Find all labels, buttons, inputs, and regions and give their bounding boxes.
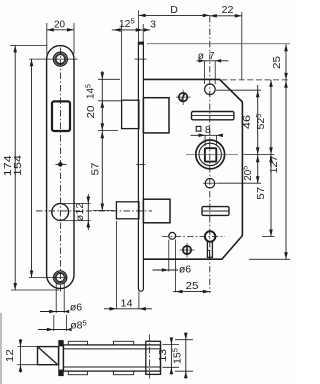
lower slot — [202, 207, 229, 216]
follower inner circle — [199, 143, 221, 165]
svg-text:12: 12 — [5, 349, 16, 363]
guide tab top 1 — [68, 341, 87, 345]
dim 174 line and arrows — [13, 45, 17, 290]
svg-text:8: 8 — [205, 124, 211, 136]
follower outer circle — [196, 140, 225, 169]
dim 25 bottom line and arrows — [173, 290, 211, 294]
dead bolt centerline — [36, 210, 152, 212]
dim 15.5 extension lines — [175, 340, 193, 372]
faceplate section bottom view — [59, 341, 63, 376]
dim dia12 line and arrows — [87, 194, 91, 230]
svg-text:25: 25 — [272, 55, 283, 69]
dim dia8.5 extension lines — [54, 315, 67, 331]
left chain dimension line — [101, 71, 105, 211]
svg-text:D: D — [170, 4, 178, 16]
svg-text:22: 22 — [222, 5, 234, 16]
guide tab bottom 2 — [113, 371, 133, 375]
dim 12.5 label — [119, 17, 135, 30]
lock case outline — [143, 79, 242, 259]
dim 20 line and arrows — [47, 28, 74, 32]
dim D line and arrows — [139, 14, 210, 18]
upper slot midline — [192, 115, 234, 117]
dim dia7 line and arrows — [197, 59, 229, 63]
dim 12.5 line and arrows — [112, 28, 151, 32]
screw post top — [176, 90, 191, 106]
dim 154 label — [13, 154, 24, 176]
dim 15.5 label — [170, 348, 183, 364]
dim 8 extension lines — [205, 135, 216, 146]
svg-text:ø6: ø6 — [70, 302, 82, 314]
guide tab top 2 — [113, 341, 133, 345]
dim dia6 case extension lines — [169, 240, 176, 293]
dim 12 line and arrows — [19, 339, 23, 373]
latch body bottom view — [64, 345, 161, 371]
bottom view centerline — [148, 335, 150, 381]
dim 22 line and arrows — [210, 14, 242, 18]
dim 52.5 label — [254, 114, 267, 130]
screw post bottom — [180, 243, 195, 258]
dim 22 label — [222, 5, 234, 16]
case vertical centerline — [209, 16, 211, 293]
dim 57 right label — [256, 186, 267, 200]
faceplate edge bar — [138, 42, 143, 291]
svg-text:20: 20 — [54, 19, 65, 30]
top screw hole centerline — [29, 58, 78, 60]
ext line hole below follower — [218, 182, 262, 184]
dim dia6 case label — [179, 264, 191, 276]
hole below follower — [205, 179, 214, 188]
svg-text:25: 25 — [186, 281, 200, 292]
latch opening — [52, 101, 70, 131]
dim 12 label — [5, 349, 16, 363]
dim 14 line and arrows — [104, 307, 152, 311]
svg-text:57: 57 — [256, 186, 267, 200]
faceplate front view outline — [47, 46, 74, 289]
dim 14 extension lines — [116, 221, 138, 309]
guide tab bottom 1 — [68, 371, 87, 375]
ext line case bottom right — [249, 258, 290, 260]
svg-text:154: 154 — [13, 154, 24, 176]
dead bolt body — [143, 199, 170, 223]
dim 174 extension bottom — [11, 289, 59, 291]
dim 14.5 label — [83, 84, 96, 99]
ext line keyhole center right — [262, 236, 275, 238]
left chain extension lines — [93, 79, 122, 210]
dim dia12 label — [75, 202, 86, 221]
spindle hole 12 dia — [52, 204, 69, 221]
dim dia6 line and arrows — [40, 310, 69, 314]
reference line top — [147, 43, 290, 45]
svg-text:3: 3 — [150, 18, 156, 30]
follower square hole — [205, 148, 216, 161]
dim 14 label — [121, 298, 133, 309]
dim D label — [170, 4, 178, 16]
svg-text:13: 13 — [158, 348, 169, 362]
svg-text:127: 127 — [269, 155, 280, 173]
end flange — [146, 341, 161, 374]
hole dia7 — [205, 84, 216, 95]
case top dashed extension — [222, 79, 291, 81]
dim 25 right label — [272, 55, 283, 69]
dim 25 and 127 line — [284, 44, 288, 259]
dim dia6 extension lines — [56, 282, 64, 313]
latch bolt body — [143, 98, 169, 133]
top screw hole — [53, 52, 67, 66]
dim 57 label — [90, 162, 101, 176]
faceplate vertical centerline — [59, 48, 61, 293]
dim 20 label — [54, 19, 65, 30]
ext line latch tip — [121, 24, 123, 100]
hole below follower centerline — [203, 182, 218, 184]
dim 13 extension lines — [163, 345, 180, 368]
scan edge artifact — [0, 313, 2, 384]
svg-text:ø6: ø6 — [179, 264, 191, 276]
dim 20 extension lines — [47, 23, 74, 54]
dim 46 label — [242, 114, 253, 129]
dim 12 extension lines — [18, 347, 38, 365]
bottom screw hole — [54, 271, 67, 284]
svg-text:57: 57 — [90, 162, 101, 176]
faceplate centre point — [56, 163, 67, 167]
dim 13 line and arrows — [170, 338, 174, 375]
dim 127 label — [269, 155, 280, 173]
dim 46 and 20.5 line — [256, 85, 260, 183]
dim 13 label — [158, 348, 169, 362]
dim 8 label — [205, 124, 211, 136]
dead bolt head — [116, 202, 138, 219]
dim 3 label — [150, 18, 156, 30]
keyhole horizontal centerline — [162, 236, 225, 238]
ext line faceplate back — [142, 24, 144, 42]
dim 8 line and arrows — [191, 134, 223, 138]
svg-text:ø12: ø12 — [75, 202, 86, 221]
latch head bottom view — [38, 347, 59, 365]
dim dia6 label — [70, 302, 82, 314]
dim dia8.5 line and arrows — [38, 328, 72, 332]
bottom screw hole centerline — [29, 277, 68, 279]
dim 174 label — [3, 155, 14, 177]
dim dia8.5 label — [70, 318, 87, 331]
dim 20.5 label — [241, 166, 254, 181]
ext line follower center — [244, 153, 275, 155]
dim 20 side label — [86, 105, 97, 119]
svg-text:7: 7 — [209, 51, 215, 62]
lower slot midline — [202, 210, 229, 212]
svg-text:20: 20 — [86, 105, 97, 119]
latch shaft lines — [64, 349, 161, 367]
upper slot — [192, 112, 234, 120]
dim dia6 case line and arrow — [153, 268, 179, 272]
keyhole — [205, 231, 215, 257]
svg-text:46: 46 — [242, 114, 253, 129]
dim 15.5 line and arrows — [184, 333, 188, 379]
dim 154 line and arrows — [30, 59, 34, 277]
ext line case right top — [241, 12, 243, 80]
dim 25 bottom label — [186, 281, 200, 292]
dim dia12 extension lines — [60, 204, 90, 221]
hole dia6 case — [169, 232, 176, 239]
latch bolt head — [122, 100, 139, 128]
follower centerline — [186, 154, 238, 156]
faceplate edge bar top cap — [138, 42, 144, 45]
ext line hole7 center — [216, 89, 261, 91]
dim 52.5 and 57 line — [269, 80, 273, 237]
dim 174 extension top — [10, 44, 48, 46]
svg-text:ø: ø — [198, 51, 204, 62]
square 8 symbol — [196, 126, 201, 131]
dim dia7 extension lines — [205, 61, 216, 84]
svg-text:14: 14 — [121, 298, 133, 309]
tick at centre level — [136, 163, 145, 165]
dim dia7 label — [198, 51, 215, 62]
ext line faceplate front — [138, 11, 140, 43]
tick at screw hole level — [135, 58, 147, 60]
